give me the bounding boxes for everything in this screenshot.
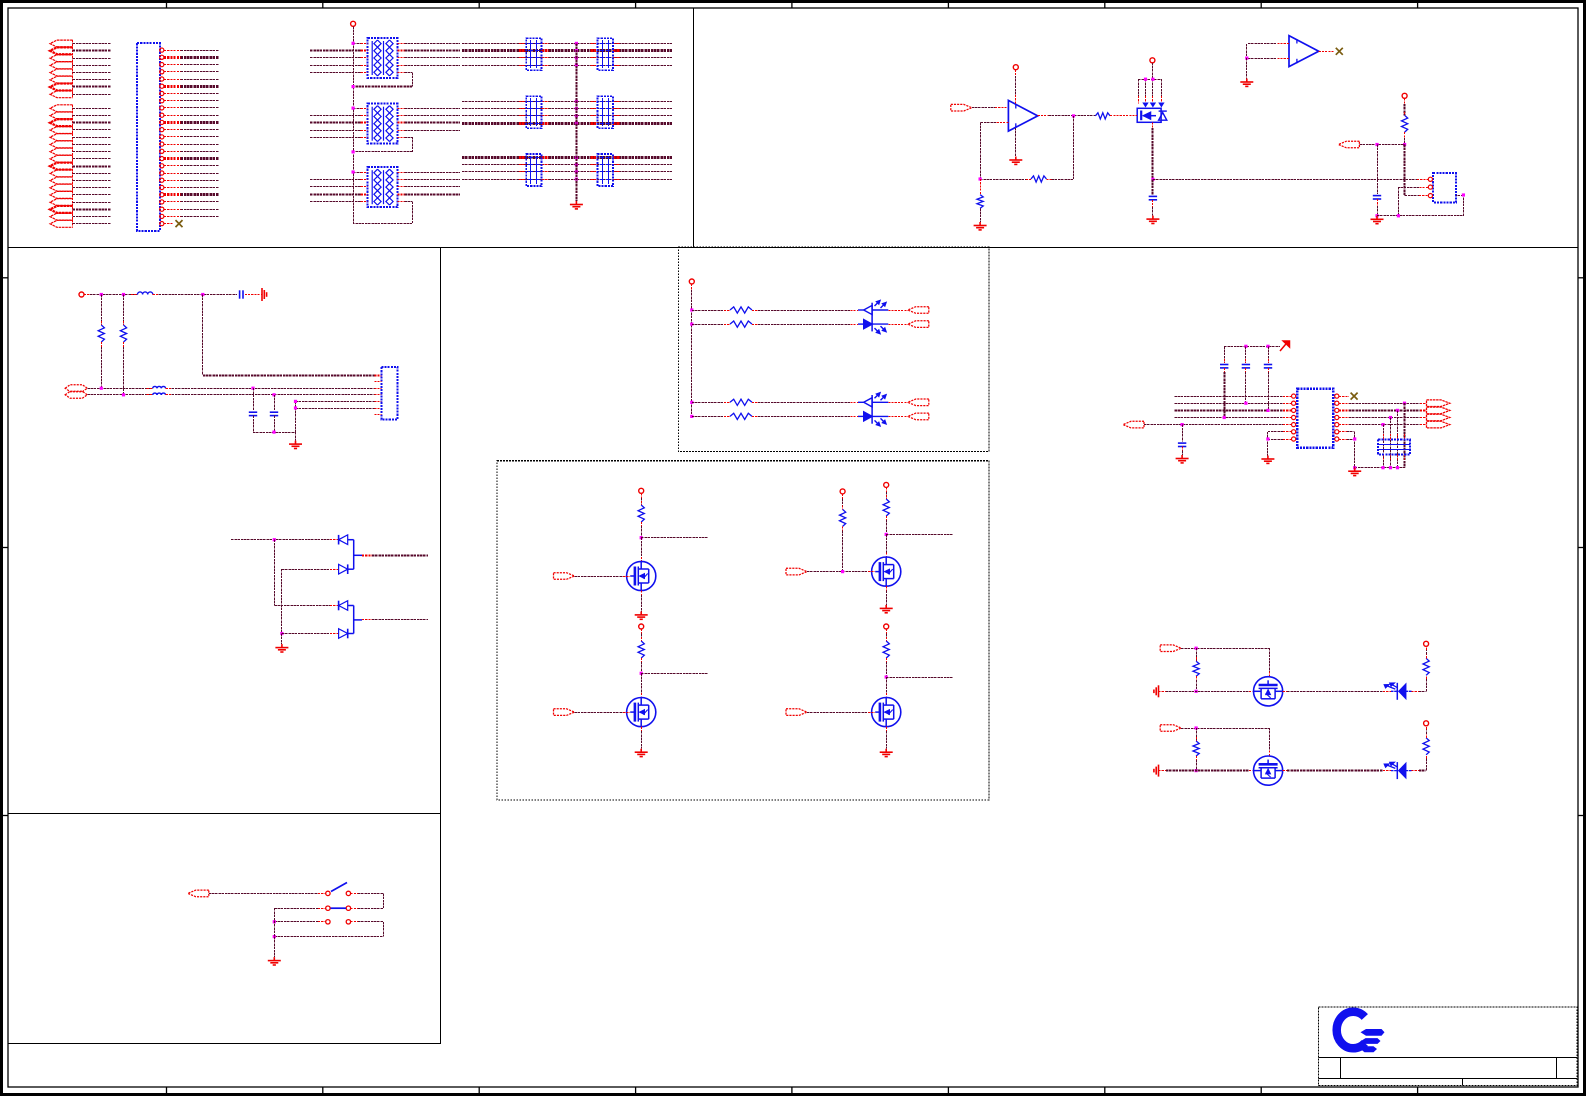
- wire pin2 shield loop: [1377, 187, 1465, 217]
- wire u2 input+: [1247, 44, 1290, 59]
- resistor pack: [368, 38, 398, 78]
- wire vcc sense bus: [203, 295, 382, 376]
- wire arrow to node: [1359, 144, 1404, 146]
- wire tap down to cap: [1377, 145, 1379, 194]
- junction u2: [1245, 57, 1248, 60]
- wire source to ground: [886, 727, 888, 749]
- inductor L2a: [153, 386, 166, 388]
- resistor drain pullup: [883, 641, 889, 658]
- op-amp U1: [1008, 100, 1037, 131]
- diode D2: [339, 564, 348, 574]
- wire cap to bus: [1377, 199, 1379, 216]
- net label arrow opto out: [908, 321, 929, 328]
- power pin filter: [79, 292, 84, 297]
- led indicator: [1384, 762, 1406, 779]
- transistor QD: [872, 698, 901, 727]
- capacitor array C left: [526, 38, 541, 70]
- connector J sensor: [1433, 173, 1456, 202]
- wire opto drive: [690, 308, 730, 311]
- transistor QL: [1254, 756, 1283, 785]
- wire pwr to res: [641, 493, 643, 505]
- net label arrow gate: [554, 573, 575, 580]
- wire ic left pin7: [1266, 437, 1291, 440]
- wire diode gnd: [281, 634, 283, 645]
- net label arrow opamp input: [951, 104, 972, 111]
- opto supply bus: [691, 284, 693, 416]
- capacitor C bulk: [240, 290, 243, 298]
- wire diff P: [87, 387, 152, 390]
- resistor pack: [368, 167, 398, 207]
- wire ic left row2: [1174, 403, 1291, 405]
- junction q1 drain: [1151, 178, 1154, 181]
- wire led to arrow: [872, 323, 908, 325]
- net label arrow opto out: [908, 399, 929, 406]
- IC U3: [1297, 389, 1333, 448]
- wire u2 output: [1319, 51, 1334, 53]
- capacitor array wires: [462, 44, 672, 66]
- wire dcap2 down: [1244, 368, 1247, 405]
- net label arrow group 2: [50, 105, 73, 228]
- resistor pack: [368, 104, 398, 144]
- power pin drv: [639, 624, 644, 629]
- wire Rb down: [123, 342, 125, 395]
- pack left wires: [310, 42, 368, 73]
- wire diode in2: [282, 569, 339, 633]
- wire switch row2 left: [274, 908, 325, 910]
- wire gate pullup: [842, 494, 844, 510]
- resistor network RN4: [1378, 439, 1410, 454]
- wire led to resistor: [1406, 770, 1426, 772]
- mosfet Q1 body: [1137, 108, 1161, 122]
- inductor L1: [138, 292, 153, 295]
- wire drain to pin1: [1417, 179, 1428, 181]
- wire res to node: [641, 658, 643, 673]
- junction drain node: [640, 672, 643, 675]
- pack wrap wire: [353, 72, 412, 86]
- decoupling cap 3: [1268, 346, 1270, 363]
- wire res to led: [752, 415, 864, 417]
- ground sensor: [1371, 216, 1384, 224]
- resistor to ground: [980, 179, 982, 195]
- mosfet Q1 body diode: [1159, 111, 1167, 120]
- block divider horizontal y=814: [8, 813, 441, 815]
- power pin opamp: [1013, 65, 1018, 70]
- wire resistor to mosfet gate: [1110, 115, 1132, 117]
- ground cap bus: [570, 201, 583, 209]
- capacitor array wires: [462, 158, 672, 180]
- wire L1 to node: [153, 294, 237, 296]
- capacitor Cf1 lower wire: [253, 416, 255, 433]
- wire res to pwr: [1426, 726, 1428, 738]
- block divider horizontal y=1044: [8, 1043, 441, 1045]
- mosfet Q1 top bar: [1138, 78, 1161, 104]
- title block divider a: [1340, 1058, 1342, 1079]
- connector J1: [137, 43, 160, 231]
- wire drain to cap: [1151, 179, 1153, 194]
- no-connect X on J1 pin 25: [176, 220, 183, 227]
- net label arrow gate: [786, 709, 807, 716]
- capacitor array wires: [462, 102, 672, 124]
- wire switch row2 right: [351, 908, 384, 910]
- capacitor array C left: [526, 154, 541, 186]
- junction dots cap bus: [575, 100, 578, 125]
- net label arrow sensor: [1338, 141, 1359, 148]
- junction cap bus: [1375, 214, 1378, 217]
- switch SW1 pins row1: [326, 891, 351, 895]
- title block divider c: [1462, 1078, 1464, 1085]
- decoupling cap 1: [1224, 346, 1226, 363]
- wire u2 to ground: [1246, 58, 1248, 78]
- wire rail left: [1159, 691, 1254, 693]
- resistor divider Rb: [123, 295, 125, 326]
- wire dcap1 down: [1223, 368, 1226, 419]
- power pin opto: [689, 279, 694, 284]
- led opto down: [864, 412, 886, 426]
- net label arrow gate: [554, 709, 575, 716]
- wire feedback left: [980, 179, 1073, 181]
- wire led to arrow: [872, 309, 908, 312]
- junction drain node: [640, 536, 643, 539]
- led opto up: [864, 301, 886, 315]
- wire switch row1 right: [351, 893, 384, 908]
- wire L2a to connector: [166, 387, 382, 390]
- wire res to node: [886, 516, 888, 534]
- pack wrap wire: [353, 137, 412, 152]
- junction feedback node: [979, 177, 982, 180]
- resistor drain pullup: [638, 641, 644, 658]
- wire drain to right block: [1153, 179, 1417, 181]
- mosfet block outline: [497, 461, 989, 800]
- block divider vertical x=440: [440, 247, 442, 1044]
- ground ic input cap: [1176, 455, 1189, 463]
- power pin led: [1424, 641, 1429, 646]
- power flag decoupling: [1280, 341, 1290, 351]
- wire ic right row4: [1339, 416, 1427, 419]
- wire arrow to opamp: [972, 107, 1009, 109]
- title block divider b: [1556, 1058, 1558, 1079]
- group 1 wires: [73, 44, 111, 95]
- power pin mosfet Q1: [1150, 58, 1155, 63]
- block divider horizontal y=247: [8, 247, 1578, 249]
- wire pwr to res: [641, 629, 643, 641]
- IC U3 right pins: [1335, 394, 1339, 441]
- wire drain tap: [886, 534, 953, 536]
- wire gate: [575, 576, 631, 578]
- wire ic right row3 bus: [1339, 409, 1427, 412]
- capacitor array C right: [598, 154, 613, 186]
- wire switch row3 left: [273, 920, 326, 923]
- ground drv: [635, 611, 648, 619]
- group 2 bus: [72, 105, 74, 228]
- led opto down: [864, 320, 886, 334]
- junction filter c: [201, 293, 204, 296]
- ground q1: [1146, 216, 1159, 224]
- wire ic right row5: [1339, 423, 1427, 426]
- pack left wires: [310, 170, 368, 201]
- wire source to ground: [641, 727, 643, 749]
- transistor QD: [627, 698, 656, 727]
- wire led to resistor: [1406, 690, 1426, 692]
- op-amp U2 spare: [1289, 36, 1319, 67]
- ground drv: [880, 605, 893, 613]
- vss stub symbol: [1154, 685, 1159, 697]
- net label arrow led drive: [1160, 645, 1181, 652]
- ground u2: [1240, 79, 1253, 87]
- resistor led limit: [1423, 738, 1429, 755]
- wire gate down: [1269, 648, 1271, 677]
- wire led to arrow: [872, 401, 908, 403]
- wire res to led: [752, 401, 864, 403]
- connector J1 pins: [160, 48, 164, 226]
- net label arrow ic in: [1123, 421, 1144, 428]
- wire rail right: [1283, 690, 1398, 692]
- connector J sensor pins: [1428, 177, 1432, 198]
- wire res to node: [641, 522, 643, 538]
- resistor pack supply bus: [353, 26, 355, 223]
- diode D1: [339, 535, 348, 545]
- group 1 bus: [72, 40, 74, 98]
- junction output node: [1072, 114, 1075, 117]
- capacitor array C left: [526, 96, 541, 128]
- wire cap to gnd-right: [245, 294, 262, 296]
- capacitor array C right: [598, 96, 613, 128]
- wire switch row1: [209, 893, 326, 895]
- transistor QD: [872, 557, 901, 586]
- decoupling cap bank top bar: [1224, 345, 1280, 348]
- wire u2 input-: [1247, 58, 1289, 60]
- wire opamp output: [1038, 115, 1096, 117]
- wire source to ground: [886, 586, 888, 605]
- led opto up: [864, 393, 886, 407]
- transistor QL: [1254, 677, 1283, 706]
- no-connect X u2: [1336, 48, 1343, 55]
- capacitor drain snubber: [1149, 196, 1157, 199]
- ground feedback divider: [974, 222, 987, 230]
- wire node down to pin3: [1405, 145, 1428, 196]
- wire gate down: [1269, 728, 1271, 756]
- wire L2b to connector: [166, 393, 382, 396]
- wire pullup to node: [1404, 132, 1406, 144]
- group 2 wires: [73, 109, 111, 224]
- net label arrow opto out: [908, 307, 929, 314]
- wire ic left row3 bus: [1174, 409, 1291, 411]
- wire switch row3 right: [351, 922, 384, 937]
- power pin led: [1424, 721, 1429, 726]
- ground right-facing: [262, 288, 267, 301]
- junction sensor node: [1403, 143, 1406, 146]
- wire ic right row2: [1339, 402, 1427, 405]
- junction sensor tap: [1375, 143, 1378, 146]
- power pin drv: [639, 488, 644, 493]
- optocoupler block outline: [678, 247, 989, 451]
- wire dcap3 down: [1266, 368, 1269, 412]
- led shared cathode bar: [871, 303, 873, 332]
- resistor opto: [730, 307, 752, 313]
- wire switch row4 return: [273, 935, 383, 938]
- wire gnd stem filter: [295, 432, 297, 441]
- connector J2: [381, 367, 397, 420]
- capacitor Cf2 lower wire: [274, 416, 276, 433]
- connector J1 pin wires: [164, 51, 219, 224]
- resistor pullup sensor: [1402, 115, 1408, 132]
- wire ic left row1: [1174, 396, 1291, 398]
- ground rn: [1348, 468, 1361, 476]
- wire cap to ground: [1152, 200, 1154, 216]
- IC U3 left pins: [1292, 394, 1296, 441]
- resistor divider Ra: [101, 295, 103, 326]
- resistor drain pullup: [638, 505, 644, 522]
- wire ic left row5: [1144, 423, 1292, 426]
- wire q1 vcc: [1152, 63, 1154, 79]
- switch SW1 pins row2: [326, 906, 351, 910]
- ground drv: [880, 749, 893, 757]
- ground filter: [289, 441, 302, 449]
- power pin drv: [884, 624, 889, 629]
- resistor gate series: [1095, 113, 1110, 119]
- ground drv: [635, 749, 648, 757]
- wire arrow to gate node: [1181, 647, 1269, 650]
- switch lever row1 open: [331, 883, 347, 892]
- wire res to led: [752, 323, 864, 325]
- wire diode in1: [231, 538, 338, 541]
- net label arrow group 1: [50, 40, 73, 98]
- diode pair bus 1: [353, 540, 355, 570]
- wire res to ground: [980, 208, 982, 222]
- net label arrow gate: [786, 568, 807, 575]
- wire sensor pullup: [1404, 98, 1406, 115]
- switch SW1 pins row3: [326, 920, 351, 924]
- title block row line 2: [1319, 1078, 1578, 1080]
- junction dots cap bus: [575, 42, 578, 67]
- capacitor Cf2: [274, 395, 276, 411]
- mosfet Q1 gate stub: [1132, 115, 1137, 117]
- company logo: [1337, 1012, 1385, 1052]
- capacitor array C right: [598, 38, 613, 70]
- wire up to res: [1426, 755, 1428, 771]
- junction gate node: [841, 570, 844, 573]
- net label arrow opto out: [908, 413, 929, 420]
- wire pulldown to rail: [1195, 676, 1198, 693]
- mosfet Q1 source diodes: [1142, 103, 1164, 108]
- ground switch: [268, 957, 281, 965]
- wire inverting input: [980, 122, 1008, 179]
- wire cap ic gnd: [1182, 447, 1184, 456]
- wire rail left: [1159, 770, 1254, 772]
- wire gate pullup down: [842, 526, 844, 571]
- led shared cathode bar: [871, 395, 873, 424]
- wire diode vert1: [274, 540, 276, 606]
- wire gate: [807, 571, 875, 573]
- wire pwr to res: [886, 629, 888, 641]
- resistor gate pullup: [840, 509, 846, 526]
- power pin drv: [884, 482, 889, 487]
- wire node to mosfet: [886, 534, 888, 557]
- wire gate: [807, 712, 875, 714]
- ground ic left: [1261, 456, 1274, 464]
- junction dots cap bus: [575, 156, 578, 181]
- wire rn verticals: [1384, 403, 1405, 468]
- wire diff N: [87, 393, 152, 396]
- wire ic right pin1: [1339, 396, 1349, 398]
- wire up to res: [1426, 675, 1428, 691]
- wire node to mosfet: [886, 677, 888, 698]
- inductor L2b: [153, 393, 166, 395]
- title block row line 1: [1319, 1057, 1578, 1059]
- wire pwr to res: [886, 487, 888, 499]
- resistor opto: [730, 399, 752, 405]
- diode pair bus 2: [353, 606, 355, 634]
- wire gate: [575, 712, 631, 714]
- wire cap gnd bus: [253, 431, 296, 434]
- resistor gate pulldown: [1196, 648, 1198, 661]
- wire ic right pin7: [1339, 437, 1356, 440]
- wire opto drive: [690, 401, 730, 404]
- wire diode out1: [354, 554, 428, 556]
- switch lever row2 closed: [331, 907, 347, 909]
- net label hexagon N: [65, 391, 87, 398]
- power pin sensor: [1402, 93, 1407, 98]
- wire node to mosfet: [641, 673, 643, 697]
- wire diode out2: [354, 619, 428, 621]
- resistor gate pulldown: [1196, 728, 1198, 741]
- resistor opto: [730, 321, 752, 327]
- diode D3: [339, 601, 348, 611]
- wire feedback vertical: [1073, 116, 1075, 179]
- net label arrow led drive: [1160, 725, 1181, 732]
- wire filter top rail: [84, 294, 138, 296]
- pack right wires: [397, 173, 460, 195]
- pack right wires: [397, 109, 460, 131]
- capacitor ic input: [1182, 425, 1184, 442]
- decoupling cap 2: [1245, 346, 1247, 363]
- capacitor ground bus: [575, 43, 577, 201]
- wire rail right: [1283, 770, 1398, 772]
- transistor QD: [627, 561, 656, 590]
- block divider vertical x=693: [693, 8, 695, 247]
- wire rn bottom bus: [1353, 466, 1406, 469]
- net label arrow switch: [188, 890, 209, 897]
- wire q1 drain down: [1152, 122, 1154, 179]
- title block outline: [1319, 1007, 1578, 1086]
- wire ic right pin6: [1339, 432, 1355, 468]
- wire diode in3: [274, 605, 338, 607]
- vss stub symbol: [1154, 765, 1159, 777]
- wire sense taps: [294, 400, 381, 432]
- wire source to ground: [641, 591, 643, 612]
- wire ic left pin6: [1268, 432, 1292, 456]
- net label arrows ic out: [1427, 400, 1450, 428]
- wire res to node: [886, 658, 888, 677]
- wire pulldown to rail: [1195, 756, 1198, 772]
- wire opamp vcc: [1015, 70, 1017, 104]
- wire opto drive: [690, 323, 730, 326]
- resistor led limit: [1423, 658, 1429, 675]
- no-connect X ic pin1: [1351, 393, 1358, 400]
- wire res to led: [752, 309, 864, 312]
- resistor drain pullup: [883, 499, 889, 516]
- led indicator: [1384, 683, 1406, 700]
- wire switch common: [274, 908, 276, 957]
- power pin resistor packs: [351, 21, 356, 26]
- ground opamp: [1009, 157, 1022, 165]
- junction filter a: [100, 293, 103, 296]
- wire diode in4: [280, 632, 338, 635]
- wire node to mosfet: [641, 538, 643, 562]
- junction drain node: [885, 533, 888, 536]
- ground diodes: [275, 644, 288, 652]
- junction filter b: [122, 293, 125, 296]
- wire led to arrow: [872, 415, 908, 417]
